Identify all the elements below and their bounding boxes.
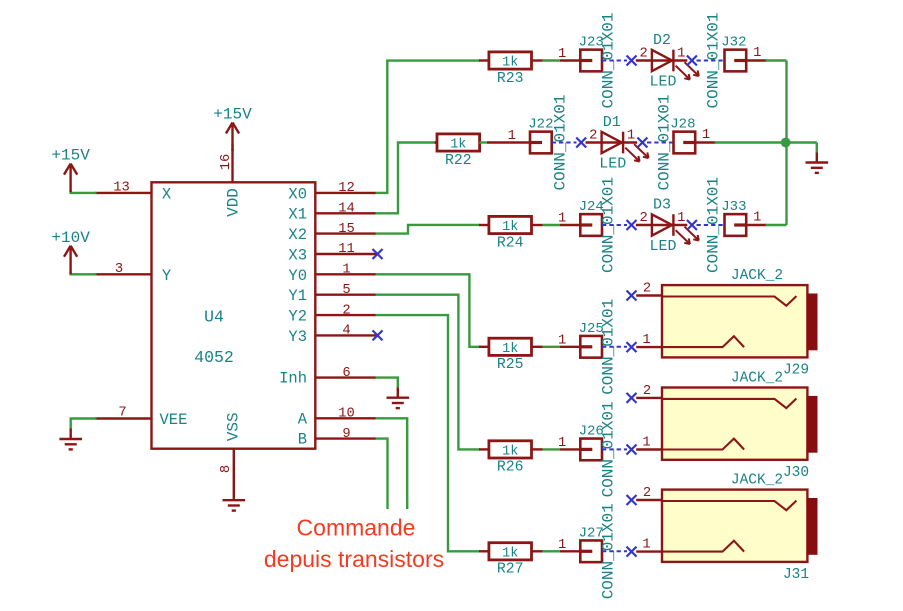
resistor R23 1k	[489, 52, 532, 69]
IC U4 4052 body	[152, 182, 316, 448]
svg-text:R25: R25	[497, 357, 524, 373]
svg-text:13: 13	[113, 180, 130, 195]
svg-text:X0: X0	[288, 185, 307, 203]
svg-text:1: 1	[677, 211, 685, 226]
vertical net wire J32-J28-J33	[785, 61, 787, 226]
U4 pin 1	[315, 273, 376, 275]
J30 pin 1 stub	[636, 448, 662, 450]
svg-text:1k: 1k	[502, 342, 518, 357]
resistor R22 1k	[437, 134, 480, 151]
wire X1 pin14 to R22	[376, 143, 437, 214]
wire VEE to ground	[71, 419, 97, 430]
svg-text:2: 2	[639, 211, 647, 226]
svg-text:10: 10	[338, 407, 355, 422]
wire +15V to pin 13	[71, 192, 97, 194]
svg-text:VEE: VEE	[160, 411, 188, 429]
svg-text:CONN_01X01: CONN_01X01	[656, 94, 674, 190]
svg-text:1k: 1k	[450, 138, 466, 153]
svg-text:J33: J33	[721, 199, 746, 215]
svg-text:16: 16	[219, 154, 234, 171]
J33 pin 1	[746, 224, 766, 226]
J25 pin 1	[560, 346, 580, 348]
dashed graphic line D3 to J33	[697, 224, 725, 226]
wire J32 to net bus	[766, 59, 787, 61]
svg-text:B: B	[298, 431, 307, 449]
no-connect X at D1 pin 1	[637, 138, 647, 148]
svg-text:14: 14	[338, 202, 355, 217]
svg-text:1: 1	[753, 46, 761, 61]
power +15V (left)	[69, 164, 71, 193]
wire R26 left pin stub	[479, 448, 489, 450]
svg-text:1: 1	[702, 128, 710, 143]
wire R25 left pin stub	[479, 346, 489, 348]
dashed graphic line J25 to jack	[602, 346, 627, 348]
connector J26 CONN_01X01	[580, 439, 602, 461]
no-connect X on pin 4 (Y3)	[373, 330, 383, 340]
svg-text:R26: R26	[497, 460, 524, 476]
U4 pin 12	[315, 192, 376, 194]
svg-text:D1: D1	[603, 114, 621, 131]
svg-text:CONN_01X01: CONN_01X01	[705, 12, 723, 108]
ground (VEE)	[69, 429, 71, 440]
J23 pin 1	[560, 59, 580, 61]
U4 pin 16 (VDD)	[231, 149, 233, 182]
svg-text:2: 2	[643, 384, 651, 399]
no-connect X on pin 11 (X3)	[373, 249, 383, 259]
connector J32 CONN_01X01	[725, 50, 747, 72]
connector J33 CONN_01X01	[725, 214, 747, 236]
wire Y2 pin2 to R27	[376, 315, 481, 551]
svg-text:J32: J32	[721, 35, 746, 51]
svg-text:1: 1	[508, 129, 516, 144]
U4 pin 14	[315, 212, 376, 214]
dashed graphic line D2 to J32	[697, 60, 725, 62]
no-connect X at D1 pin 2	[576, 138, 586, 148]
svg-text:1: 1	[677, 47, 685, 62]
resistor R27 1k	[489, 543, 532, 560]
J24 pin 1	[560, 224, 580, 226]
svg-text:JACK_2: JACK_2	[731, 370, 783, 386]
no-connect X on J30 pin 2	[627, 393, 637, 403]
svg-text:1: 1	[753, 211, 761, 226]
wire X0 pin12 to R23	[376, 61, 481, 193]
svg-text:1k: 1k	[502, 220, 518, 235]
wire down to right ground	[816, 143, 818, 154]
svg-text:D3: D3	[653, 196, 671, 213]
J29 pin 2 stub	[636, 294, 662, 296]
wire R27 left pin stub	[479, 550, 489, 552]
annotation text Commande depuis transistors	[264, 515, 444, 573]
wire R26 to J26	[531, 448, 542, 450]
no-connect X at D3 pin 1	[687, 220, 697, 230]
wire Inh pin6 to ground	[376, 378, 398, 389]
U4 pin 4	[315, 334, 376, 336]
svg-text:J22: J22	[528, 117, 553, 133]
no-connect X on J29 pin 2	[627, 291, 637, 301]
svg-text:X: X	[162, 185, 172, 203]
wire R23 to J23	[531, 59, 542, 61]
connector J28 CONN_01X01	[674, 132, 696, 154]
svg-text:Commande: Commande	[297, 515, 416, 541]
wire VDD to +15V	[231, 144, 233, 151]
svg-text:12: 12	[338, 181, 355, 196]
J26 pin 1	[560, 448, 580, 450]
svg-text:+15V: +15V	[51, 147, 90, 165]
svg-text:7: 7	[118, 406, 126, 421]
J30 pin 2 stub	[636, 397, 662, 399]
wire R22 left pin stub	[435, 141, 438, 143]
svg-text:3: 3	[115, 262, 123, 277]
svg-text:1: 1	[558, 212, 566, 227]
svg-text:R23: R23	[497, 71, 524, 87]
svg-text:X1: X1	[288, 206, 307, 224]
svg-text:+15V: +15V	[213, 106, 252, 124]
no-connect X on J31 pin 2	[627, 495, 637, 505]
wire R24 left pin stub	[479, 224, 489, 226]
svg-text:2: 2	[643, 486, 651, 501]
svg-text:1: 1	[558, 436, 566, 451]
connector J23 CONN_01X01	[580, 50, 602, 72]
svg-text:LED: LED	[649, 238, 676, 255]
dashed graphic line D1 to J28	[647, 142, 674, 144]
U4 pin 11	[315, 253, 376, 255]
svg-text:2: 2	[342, 303, 350, 318]
U4 pin 10	[315, 417, 376, 419]
jack J30 JACK_2	[662, 370, 818, 481]
wire J28 to junction and right ground	[715, 141, 817, 143]
svg-text:15: 15	[338, 222, 355, 237]
svg-text:X2: X2	[288, 226, 307, 244]
svg-text:9: 9	[342, 427, 350, 442]
svg-text:Y2: Y2	[288, 308, 307, 326]
svg-text:D2: D2	[653, 32, 671, 49]
svg-text:11: 11	[338, 242, 355, 257]
resistor R24 1k	[489, 216, 532, 233]
LED D3	[636, 196, 699, 255]
svg-text:JACK_2: JACK_2	[731, 472, 783, 488]
dashed graphic line J23 to D2	[602, 60, 627, 62]
U4 pin 6	[315, 376, 376, 378]
wire R22 to J22	[479, 141, 487, 143]
svg-text:X3: X3	[288, 246, 307, 264]
svg-text:1k: 1k	[502, 56, 518, 71]
no-connect X at D3 pin 2	[627, 220, 637, 230]
svg-text:1: 1	[642, 436, 650, 451]
svg-text:R22: R22	[445, 153, 472, 169]
resistor R26 1k	[489, 441, 532, 458]
wire Y1 pin5 to R26	[376, 295, 481, 450]
jack J29 JACK_2	[662, 268, 818, 379]
wire Y0 pin1 to R25	[376, 274, 481, 347]
svg-text:U4: U4	[204, 308, 224, 327]
svg-text:1: 1	[642, 538, 650, 553]
svg-text:Y3: Y3	[288, 328, 307, 346]
svg-text:LED: LED	[649, 73, 676, 90]
U4 pin 15	[315, 232, 376, 234]
dashed graphic line J26 to jack	[602, 448, 627, 450]
J31 pin 1 stub	[636, 550, 662, 552]
svg-text:A: A	[298, 410, 308, 428]
svg-text:R27: R27	[497, 562, 524, 578]
svg-text:1: 1	[342, 263, 350, 278]
jack J31 JACK_2	[662, 472, 818, 583]
svg-text:+10V: +10V	[51, 229, 90, 247]
U4 pin 3 (Y)	[95, 273, 152, 275]
svg-text:Y: Y	[162, 267, 172, 285]
dashed graphic line J24 to D3	[602, 224, 627, 226]
power +10V	[69, 246, 71, 274]
svg-text:1: 1	[558, 538, 566, 553]
wire B pin9 to command node	[376, 439, 388, 509]
LED D1	[586, 114, 649, 173]
resistor R25 1k	[489, 338, 532, 355]
ground (VSS)	[223, 499, 246, 501]
svg-text:4: 4	[342, 324, 350, 339]
svg-text:1: 1	[627, 129, 635, 144]
connector J22 CONN_01X01	[530, 132, 552, 154]
dashed graphic line J22 to D1	[552, 142, 577, 144]
svg-text:8: 8	[219, 465, 234, 473]
wire J33 to net bus	[766, 224, 787, 226]
junction node	[781, 138, 791, 148]
svg-text:2: 2	[643, 282, 651, 297]
svg-text:1: 1	[558, 334, 566, 349]
svg-text:1k: 1k	[502, 444, 518, 459]
wire R25 to J25	[531, 346, 542, 348]
U4 pin 7 (VEE)	[95, 417, 152, 419]
no-connect X on J31 pin 1	[627, 547, 637, 557]
svg-text:R24: R24	[497, 235, 524, 251]
wire X2 pin15 to R24	[376, 225, 481, 234]
no-connect X at D2 pin 1	[687, 56, 697, 66]
svg-text:Y0: Y0	[288, 267, 307, 285]
svg-text:1: 1	[558, 47, 566, 62]
no-connect X on J30 pin 1	[627, 445, 637, 455]
svg-text:Y1: Y1	[288, 287, 307, 305]
svg-text:LED: LED	[599, 155, 626, 172]
LED D2	[636, 32, 699, 91]
connector J24 CONN_01X01	[580, 214, 602, 236]
wire +10V to pin 3	[71, 273, 97, 275]
svg-text:2: 2	[589, 129, 597, 144]
svg-text:5: 5	[342, 283, 350, 298]
U4 pin 5	[315, 294, 376, 296]
U4 pin 13 (X)	[95, 192, 152, 194]
connector J27 CONN_01X01	[580, 540, 602, 562]
svg-text:VDD: VDD	[225, 188, 243, 217]
J32 pin 1	[746, 59, 766, 61]
ground (Inh)	[397, 388, 399, 398]
no-connect X at D2 pin 2	[627, 56, 637, 66]
J29 pin 1 stub	[636, 346, 662, 348]
svg-text:CONN_01X01: CONN_01X01	[705, 177, 723, 273]
svg-text:J31: J31	[783, 567, 809, 583]
svg-text:1: 1	[642, 333, 650, 348]
wire R27 to J27	[531, 550, 542, 552]
U4 pin 2	[315, 314, 376, 316]
svg-text:6: 6	[342, 366, 350, 381]
wire R24 to J24	[531, 224, 542, 226]
wire R23 left pin stub	[479, 59, 489, 61]
ground (right)	[816, 153, 818, 163]
svg-text:2: 2	[639, 47, 647, 62]
U4 pin 8 (VSS)	[233, 449, 235, 501]
J22 pin 1	[510, 141, 530, 143]
svg-text:1k: 1k	[502, 546, 518, 561]
J27 pin 1	[560, 550, 580, 552]
svg-text:J29: J29	[783, 363, 809, 379]
connector J25 CONN_01X01	[580, 336, 602, 358]
svg-text:JACK_2: JACK_2	[731, 268, 783, 284]
svg-text:depuis transistors: depuis transistors	[264, 546, 444, 572]
svg-text:J28: J28	[670, 117, 695, 133]
svg-text:4052: 4052	[194, 348, 234, 367]
dashed graphic line J27 to jack	[602, 550, 627, 552]
no-connect X on J29 pin 1	[627, 342, 637, 352]
power +15V (top)	[231, 123, 233, 152]
wire A pin10 to command node	[376, 418, 408, 509]
J31 pin 2 stub	[636, 499, 662, 501]
svg-text:J30: J30	[783, 465, 809, 481]
svg-text:Inh: Inh	[279, 370, 307, 388]
J28 pin 1	[695, 141, 715, 143]
U4 pin 9	[315, 437, 376, 439]
svg-text:VSS: VSS	[225, 412, 243, 441]
